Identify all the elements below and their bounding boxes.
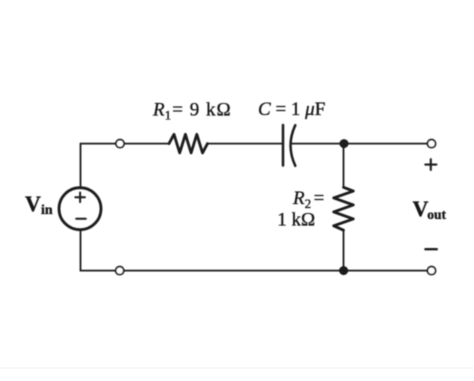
wire R2 top lead — [343, 144, 345, 188]
wire bottom horizontal — [81, 270, 432, 272]
output minus sign — [425, 248, 436, 250]
capacitor C right curved plate — [291, 125, 296, 166]
svg-text:V: V — [413, 196, 429, 221]
svg-text:out: out — [427, 207, 446, 222]
resistor R2 — [334, 187, 354, 230]
svg-text:R1= 9 kΩ: R1= 9 kΩ — [152, 100, 232, 123]
voltage source V_in circle — [59, 188, 101, 230]
wire R2 bottom lead — [343, 230, 345, 271]
svg-text:C = 1 μF: C = 1 μF — [258, 99, 325, 120]
output terminal bottom open circle — [427, 267, 435, 275]
wire node A to output terminal — [344, 143, 432, 145]
junction dot bottom — [339, 266, 348, 275]
svg-text:in: in — [41, 203, 53, 218]
node A junction dot top — [340, 139, 349, 148]
wire top right segment — [208, 143, 284, 145]
output plus sign — [425, 159, 436, 170]
input terminal top open circle — [116, 140, 124, 148]
source minus sign — [76, 218, 86, 220]
wire top horizontal — [81, 143, 170, 145]
svg-text:1 kΩ: 1 kΩ — [277, 210, 315, 231]
wire capacitor to node A — [292, 143, 345, 145]
wire source bottom lead — [80, 230, 82, 271]
resistor R1 — [169, 134, 208, 153]
wire source top lead — [80, 144, 82, 188]
capacitor C left plate — [282, 125, 285, 166]
svg-text:V: V — [25, 191, 41, 216]
faint page artifact line — [0, 368, 474, 369]
input terminal bottom open circle — [116, 267, 124, 275]
source plus sign — [75, 193, 85, 203]
svg-text:R2=: R2= — [292, 188, 324, 211]
output terminal top open circle — [427, 140, 435, 148]
